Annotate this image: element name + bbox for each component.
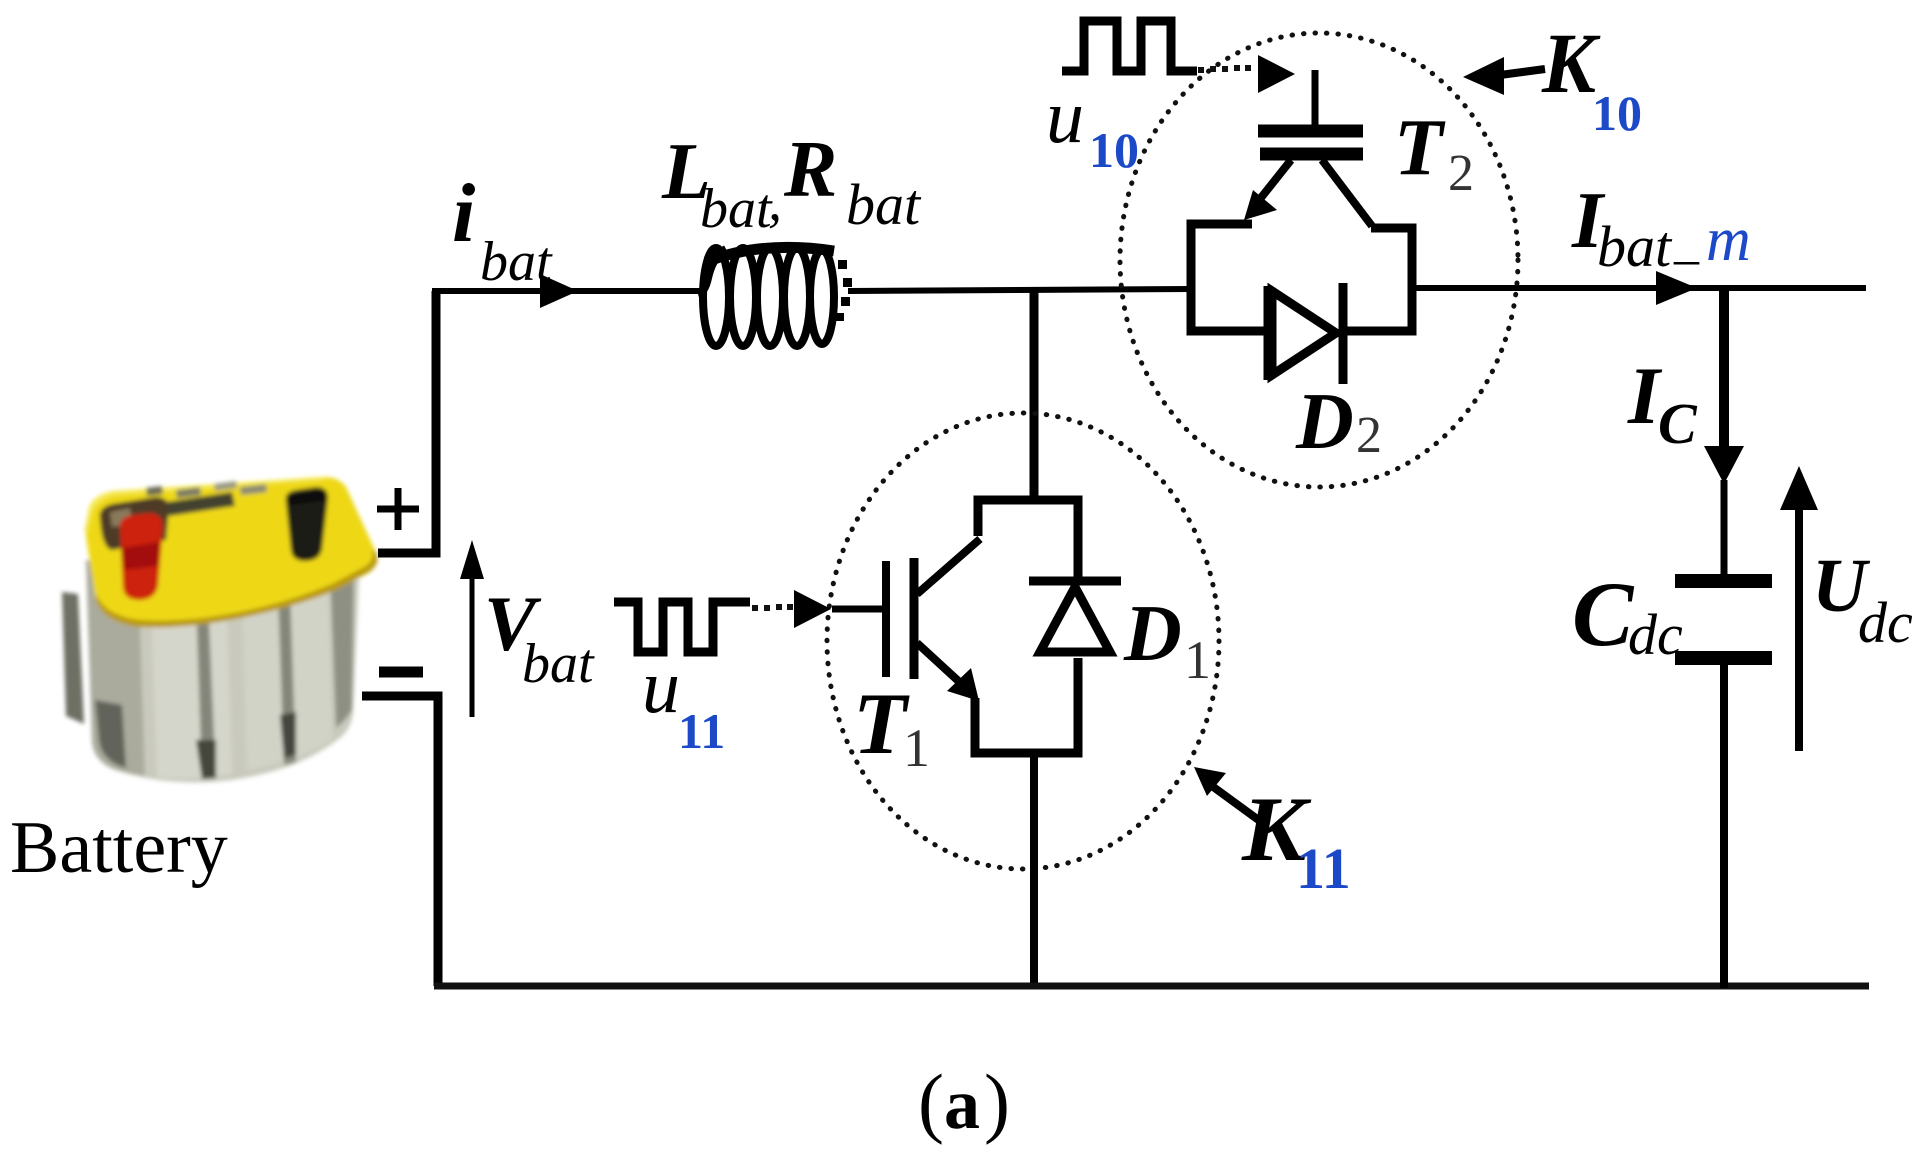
svg-text:(: ( bbox=[918, 1058, 944, 1145]
wire capacitor bottom bbox=[1720, 664, 1728, 988]
wire junction to T1 bbox=[1030, 289, 1039, 502]
black terminal bbox=[286, 487, 328, 561]
loop rectangle T2 bbox=[1191, 224, 1412, 331]
wire battery negative bbox=[362, 696, 438, 986]
svg-text:,: , bbox=[768, 171, 782, 233]
capacitor C_dc bbox=[1675, 574, 1772, 588]
IGBT T1 bbox=[832, 539, 980, 688]
emitter arrow T2 bbox=[1244, 190, 1277, 220]
arrow I_bat_m bbox=[1656, 271, 1697, 305]
svg-text:1: 1 bbox=[903, 718, 930, 778]
svg-text:bat: bat bbox=[700, 178, 773, 240]
emitter arrow T1 bbox=[947, 668, 979, 701]
wire top rail right bbox=[1410, 285, 1866, 291]
svg-text:a: a bbox=[944, 1064, 980, 1144]
svg-text:1: 1 bbox=[1184, 630, 1211, 690]
svg-text:dc: dc bbox=[1628, 602, 1683, 667]
arrow i_bat bbox=[540, 274, 578, 308]
svg-text:Battery: Battery bbox=[10, 807, 228, 889]
red terminal bbox=[100, 497, 169, 550]
wire battery positive bbox=[378, 291, 436, 553]
svg-text:bat: bat bbox=[522, 633, 595, 695]
diode D2 bbox=[1268, 283, 1343, 384]
svg-text:11: 11 bbox=[1296, 836, 1351, 901]
svg-text:): ) bbox=[984, 1058, 1010, 1145]
dotted circle K10 bbox=[1120, 33, 1518, 487]
minus terminal sign bbox=[379, 667, 423, 678]
svg-text:C: C bbox=[1658, 391, 1698, 456]
diode D1 bbox=[1029, 581, 1121, 652]
svg-text:D: D bbox=[1123, 590, 1182, 678]
svg-text:2: 2 bbox=[1448, 145, 1474, 202]
dotted arrow u10 bbox=[1198, 65, 1251, 73]
loop rectangle T1 bbox=[975, 500, 1078, 753]
dotted circle K11 bbox=[827, 413, 1219, 869]
battery lid bbox=[85, 477, 376, 627]
wire top rail left bbox=[432, 288, 700, 294]
lid markings bbox=[166, 492, 235, 516]
svg-text:bat: bat bbox=[1597, 214, 1673, 279]
dotted arrow u11 bbox=[752, 604, 793, 611]
battery photo bbox=[62, 477, 377, 783]
svg-text:D: D bbox=[1295, 378, 1354, 466]
plus terminal sign bbox=[377, 488, 419, 530]
svg-text:i: i bbox=[452, 167, 475, 260]
svg-text:11: 11 bbox=[678, 703, 725, 759]
arrow I_C down bbox=[1719, 288, 1729, 450]
svg-text:C: C bbox=[1572, 563, 1635, 665]
svg-text:bat: bat bbox=[846, 172, 922, 237]
inductor L_bat R_bat bbox=[698, 247, 834, 346]
svg-text:u: u bbox=[1046, 75, 1084, 159]
pwm u10 bbox=[1062, 21, 1197, 71]
IGBT T2 bbox=[1256, 70, 1372, 226]
arrow V_bat bbox=[470, 575, 475, 717]
arrow U_dc up bbox=[1795, 506, 1803, 751]
pwm u11 bbox=[614, 602, 750, 652]
arrow K10 bbox=[1463, 57, 1504, 95]
svg-text:10: 10 bbox=[1592, 85, 1642, 141]
svg-text:bat: bat bbox=[480, 231, 553, 293]
svg-text:u: u bbox=[642, 645, 680, 729]
wire top rail mid bbox=[848, 289, 1193, 291]
wire T1 bottom bbox=[1030, 753, 1038, 988]
svg-text:T: T bbox=[1394, 104, 1446, 192]
svg-text:T: T bbox=[853, 676, 910, 773]
svg-text:_: _ bbox=[1673, 213, 1700, 269]
arrow K11 bbox=[1194, 767, 1226, 796]
svg-text:m: m bbox=[1706, 206, 1751, 274]
svg-text:10: 10 bbox=[1089, 122, 1139, 178]
wire bottom rail bbox=[434, 983, 1869, 990]
svg-text:R: R bbox=[783, 126, 837, 214]
svg-text:dc: dc bbox=[1858, 590, 1913, 655]
svg-text:2: 2 bbox=[1356, 407, 1382, 464]
